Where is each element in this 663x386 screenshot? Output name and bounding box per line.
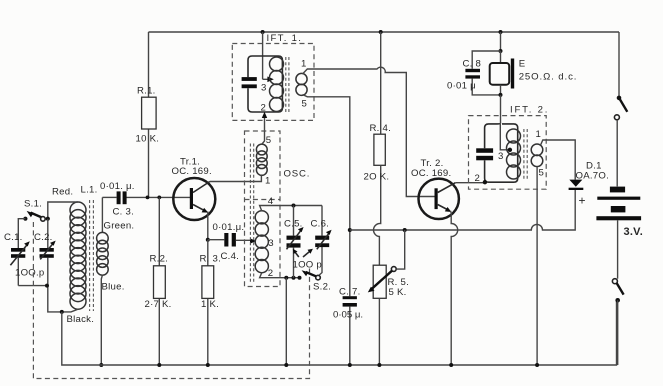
- node junction C7 line / AGC wire: [348, 228, 352, 232]
- resistor R3: [200, 240, 222, 365]
- wire C1/C2 bottom join: [18, 285, 48, 287]
- node junction base wire / R1: [146, 196, 150, 200]
- wire IFT2 pin5 down to bottom rail: [536, 167, 538, 365]
- IFT1 screening box (dashed): [232, 44, 314, 121]
- capacitor C5 (variable 100p): [284, 206, 304, 278]
- svg-text:1OO.p: 1OO.p: [15, 268, 45, 279]
- wire Tr2 emitter down to rail (hops detector line): [451, 211, 458, 365]
- svg-text:R.1.: R.1.: [137, 86, 156, 97]
- wire right rail down to on/off switch: [618, 32, 620, 96]
- battery 3V: [596, 187, 643, 279]
- IFT1 tuned winding loop: [248, 56, 282, 112]
- wire E down into IFT2: [500, 95, 502, 123]
- svg-text:10 K.: 10 K.: [136, 134, 160, 145]
- transistor Tr1 OC169: [172, 157, 216, 221]
- wire Tr1 collector to OSC pin1: [210, 176, 262, 182]
- node junction blue wire / bottom rail: [99, 363, 103, 367]
- potentiometer R5: [368, 230, 409, 365]
- IFT1 secondary winding: [296, 73, 307, 95]
- resistor R4: [364, 32, 392, 265]
- svg-text:5: 5: [539, 168, 545, 179]
- svg-text:C. 7.: C. 7.: [339, 287, 361, 298]
- capacitor C4: [208, 222, 256, 262]
- svg-text:2O K.: 2O K.: [364, 172, 390, 183]
- svg-text:0·01.μ.: 0·01.μ.: [213, 222, 245, 233]
- wire OSC pin2 bottom lead: [260, 273, 300, 278]
- svg-text:3: 3: [261, 83, 267, 94]
- svg-text:OSC.: OSC.: [284, 169, 311, 180]
- node junction C7 / bottom rail: [348, 363, 352, 367]
- capacitor C8: [447, 51, 501, 95]
- OSC core (dashed): [250, 144, 253, 284]
- capacitor C2 (variable, 100p): [34, 219, 56, 286]
- svg-text:C.5.: C.5.: [284, 219, 303, 230]
- svg-text:OC. 169.: OC. 169.: [411, 168, 451, 179]
- switch S1: [18, 199, 50, 249]
- wire IFT1 pin2 to OSC pin5 with arrow: [264, 118, 266, 131]
- node junction R2 / bottom rail: [157, 363, 161, 367]
- OSC internal divider (dashed): [245, 199, 281, 201]
- wire Tr1 emitter down to R3/C4 node: [207, 212, 209, 240]
- svg-text:2: 2: [261, 103, 267, 114]
- wire red end of L1 to tuning line: [48, 202, 78, 218]
- OSC coil screening box (dashed): [245, 131, 281, 287]
- node junction emitter / bottom rail: [449, 363, 453, 367]
- svg-text:C.2.: C.2.: [34, 232, 53, 243]
- wire Tr2 collector to IFT2 pin2: [455, 182, 485, 184]
- node junction top rail to R4: [379, 30, 383, 34]
- node junction black wire to ground drop: [60, 310, 64, 314]
- svg-text:R. 3.: R. 3.: [200, 254, 222, 265]
- svg-text:3.V.: 3.V.: [624, 226, 644, 238]
- transistor Tr2 OC169: [411, 158, 459, 219]
- svg-text:Black.: Black.: [67, 314, 95, 325]
- wire IFT1 pin5 to C7 line: [303, 95, 350, 231]
- switch on/off upper contact: [614, 96, 627, 187]
- svg-text:C.4.: C.4.: [221, 251, 240, 262]
- capacitor C6 (variable 100p): [311, 206, 332, 276]
- inductor L1 main winding: [70, 202, 86, 309]
- svg-text:R. 4.: R. 4.: [370, 123, 392, 134]
- resistor R2: [145, 197, 172, 365]
- svg-text:25O.Ω. d.c.: 25O.Ω. d.c.: [519, 72, 578, 83]
- node junction C5 top: [292, 204, 296, 208]
- svg-text:Green.: Green.: [104, 221, 135, 232]
- L1 ferrite rod core (dashed): [90, 200, 94, 311]
- wire IFT1 pin1 to Tr2 base (hops R4 lead): [303, 67, 435, 196]
- svg-text:C.6.: C.6.: [311, 219, 330, 230]
- OSC lower winding: [255, 211, 268, 273]
- label 100p for C5/C6 with arrows: [293, 249, 323, 271]
- node S2 fixed contact: [298, 276, 302, 280]
- IFT2 core (dashed): [524, 129, 527, 179]
- switch S2: [302, 270, 331, 292]
- switch on/off lower contact: [612, 279, 623, 365]
- wire IFT2 tap 3 branch: [500, 124, 508, 150]
- IFT1 core (dashed): [286, 57, 289, 112]
- svg-text:3: 3: [498, 151, 504, 162]
- wire black end of L1 to bottom: [48, 286, 78, 312]
- wire detector output line (hops IFT2 pin5 lead): [350, 190, 575, 230]
- node junction pin2 wire / C5 bottom: [292, 276, 296, 280]
- node junction IFT2 pin2 / collector: [483, 180, 487, 184]
- svg-text:C. 8: C. 8: [463, 59, 482, 70]
- IFT1 parallel capacitor: [242, 77, 257, 81]
- svg-text:2·7 K.: 2·7 K.: [145, 299, 172, 310]
- wire feed from top rail into IFT1 with arrow: [263, 32, 268, 79]
- node junction C8 top: [499, 49, 503, 53]
- svg-text:L.1.: L.1.: [81, 185, 98, 196]
- svg-text:3: 3: [268, 238, 274, 249]
- node junction tap3 on winding: [508, 148, 512, 152]
- capacitor C3: [100, 181, 135, 218]
- svg-text:IFT. 2.: IFT. 2.: [510, 105, 549, 116]
- resistor R1: [136, 32, 160, 197]
- node junction bottom rail: [284, 363, 288, 367]
- wire blue end down to bottom rail: [101, 275, 102, 365]
- wire green tap to coupling coil: [101, 197, 103, 232]
- IFT2 parallel capacitor: [476, 148, 493, 153]
- wire OSC pin2 node down to bottom rail: [285, 278, 287, 365]
- svg-text:OA.7O.: OA.7O.: [576, 171, 610, 182]
- svg-text:1OO p: 1OO p: [293, 260, 323, 271]
- svg-text:1 K.: 1 K.: [201, 299, 219, 310]
- svg-text:1: 1: [265, 176, 271, 187]
- svg-text:2: 2: [475, 173, 481, 184]
- node junction top rail to IFT1: [261, 30, 265, 34]
- diode D1 OA70: [569, 161, 609, 208]
- node junction emitter / R3 / C4: [206, 238, 210, 242]
- node junction R5 / bottom rail: [377, 363, 381, 367]
- svg-text:5: 5: [266, 135, 272, 146]
- IFT1 primary winding: [270, 57, 284, 112]
- svg-text:0·01. μ.: 0·01. μ.: [100, 181, 135, 192]
- svg-text:5 K.: 5 K.: [389, 287, 407, 298]
- svg-text:S.2.: S.2.: [313, 282, 331, 293]
- node junction C8 bottom: [499, 93, 503, 97]
- svg-text:OC. 169.: OC. 169.: [172, 166, 212, 177]
- wire ground drop and bottom rail: [62, 300, 617, 365]
- node junction C2 bottom: [45, 284, 49, 288]
- IFT2 primary winding: [507, 129, 521, 179]
- wire top rail down to C8/E node: [500, 32, 502, 51]
- node junction base wire / R2: [157, 196, 161, 200]
- svg-text:1: 1: [301, 59, 307, 70]
- wire pin4 top of lower winding to C5/C6: [260, 206, 322, 212]
- wire top supply rail: [149, 31, 620, 33]
- capacitor C1 (variable, 100p): [4, 232, 30, 286]
- wire Tr1 base line from C3: [126, 196, 190, 198]
- capacitor C7: [333, 230, 363, 365]
- svg-text:+: +: [579, 194, 586, 208]
- svg-text:Red.: Red.: [52, 187, 73, 198]
- node junction IFT2 pin5 / bottom rail: [535, 363, 539, 367]
- svg-text:C.1.: C.1.: [4, 232, 23, 243]
- svg-text:C. 3.: C. 3.: [113, 207, 135, 218]
- svg-text:5: 5: [302, 99, 308, 110]
- svg-text:0·05 μ.: 0·05 μ.: [333, 310, 363, 321]
- IFT2 tuned winding loop: [485, 123, 518, 182]
- OSC upper winding: [256, 144, 267, 175]
- svg-text:IFT. 1.: IFT. 1.: [267, 33, 303, 44]
- node junction detector line / R5 wiper: [403, 228, 407, 232]
- earpiece E 250 ohm: [490, 51, 578, 95]
- svg-text:R.2.: R.2.: [150, 254, 169, 265]
- IFT2 secondary winding: [531, 144, 543, 167]
- svg-text:Blue.: Blue.: [102, 282, 125, 293]
- wire IFT2 pin1 to diode D1: [541, 140, 576, 180]
- node junction top rail to C8/E: [499, 30, 503, 34]
- node junction pin2 wire / ground drop: [284, 276, 288, 280]
- svg-text:0·01 μ: 0·01 μ: [447, 81, 476, 92]
- mechanical link S1 to S2 (dashed): [33, 222, 309, 379]
- svg-text:1: 1: [536, 129, 542, 140]
- wire OSC lower lead to pin1: [260, 174, 262, 177]
- svg-text:E: E: [519, 59, 526, 70]
- IFT2 screening box (dashed): [469, 116, 547, 190]
- svg-text:S.1.: S.1.: [24, 199, 42, 210]
- node junction R3 / bottom rail: [206, 363, 210, 367]
- coupling winding of L1 (green-blue): [97, 232, 109, 275]
- wire OSC pin5 top lead: [262, 131, 265, 144]
